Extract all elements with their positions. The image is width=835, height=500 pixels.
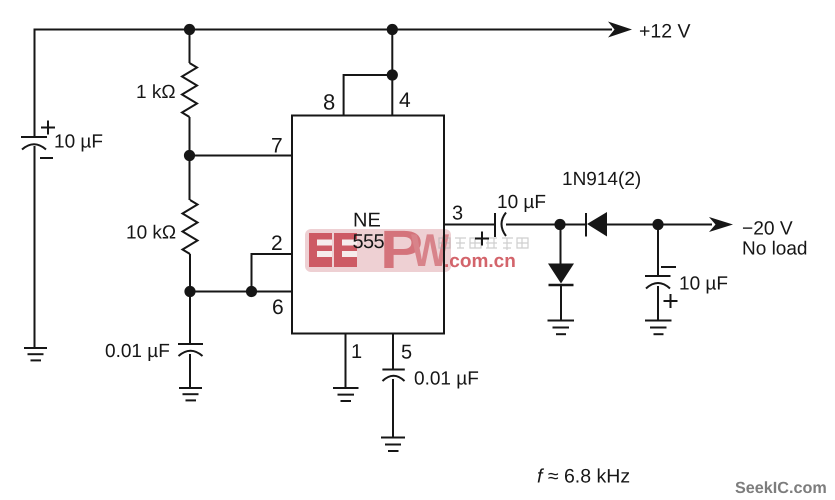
wire C1 to ground [34,146,36,348]
svg-text:10 kΩ: 10 kΩ [126,223,176,244]
watermark EEPW logo card [305,220,528,280]
wire pin 5 to C5 [392,334,394,370]
svg-text:1 kΩ: 1 kΩ [136,82,176,103]
ground (below C5) [381,438,405,452]
wire D1 to output arrow [607,224,713,226]
watermark letter E1 [309,233,332,267]
node A junction on rail at resistor chain [184,24,195,35]
svg-text:10 µF: 10 µF [679,274,728,295]
diode D1 1N914 (series, cathode left) [586,212,607,237]
wire pin 2 [252,254,293,292]
ground (below C4) [645,321,672,335]
node junction at pin 7 [184,150,195,161]
svg-text:7: 7 [271,135,283,158]
wire C5 to ground [392,379,394,438]
svg-text:0.01 µF: 0.01 µF [105,341,170,362]
svg-text:555: 555 [353,231,385,253]
wire C4 tap down [657,225,659,277]
svg-text:3: 3 [452,203,463,225]
arrow +12 V [608,22,632,38]
node junction on pin4 wire [387,69,398,80]
capacitor C3 10 uF (series, pin3) [475,213,506,246]
svg-text:10 µF: 10 µF [54,132,103,153]
svg-text:1N914(2): 1N914(2) [562,169,641,190]
wire pin 1 to ground [345,334,347,389]
wire C4 to ground [657,286,659,321]
wire pin 7 [190,155,293,157]
svg-text:f ≈ 6.8 kHz: f ≈ 6.8 kHz [537,466,630,488]
resistor R2 10 kOhm [183,200,198,254]
arrow -20 V output [709,217,733,232]
svg-text:+12 V: +12 V [639,21,691,43]
node junction at D2 tap [554,219,565,230]
svg-text:1: 1 [351,341,362,363]
watermark letter E2 [334,233,357,267]
wire pin 8 [344,75,393,116]
wire pin 6 horizontal [190,291,292,293]
wire R1 to node pin7 [189,117,191,200]
wire left vertical from rail to C1 [34,29,36,138]
svg-text:8: 8 [323,90,335,115]
svg-text:0.01 µF: 0.01 µF [414,369,479,390]
watermark chinese characters [439,238,528,250]
svg-text:4: 4 [399,89,411,112]
node junction pin2/pin6 tie [246,286,257,297]
svg-text:10 µF: 10 µF [497,192,546,213]
svg-text:6: 6 [272,296,284,319]
svg-text:2: 2 [271,232,283,255]
wire rail to R1 [189,30,191,64]
svg-text:SeekIC.com: SeekIC.com [735,479,827,497]
svg-text:−20 V: −20 V [742,219,793,240]
capacitor C1 10 uF (left) [21,121,55,159]
ground (below pin 1) [333,388,359,401]
svg-text:.com.cn: .com.cn [444,251,516,272]
ground (left, below C1) [24,348,47,360]
resistor R1 1 kOhm [182,63,197,117]
wire C2 to ground [189,354,191,388]
ground (below C2) [179,388,202,400]
capacitor C4 10 uF (output) [645,267,678,308]
node junction pin4 at rail [387,24,398,35]
wire top +12V rail [35,29,613,31]
wire pin 3 [444,224,495,226]
wire pin 4 to rail [391,30,393,116]
wire R2 to lower node [189,254,191,344]
node junction at R2 bottom [184,286,195,297]
capacitor C5 0.01 uF (pin 5) [382,370,404,382]
wire C3 to diode D1 [506,224,585,226]
diode D2 1N914 (shunt to ground) [548,225,574,321]
svg-text:NE: NE [353,210,381,232]
node junction at C4 tap [652,219,663,230]
svg-text:5: 5 [401,342,412,364]
op-amp U1 NE555 IC box [292,116,444,334]
ground (below D2) [548,321,575,335]
svg-text:No load: No load [742,239,808,260]
capacitor C2 0.01 uF (left bottom) [178,344,203,356]
